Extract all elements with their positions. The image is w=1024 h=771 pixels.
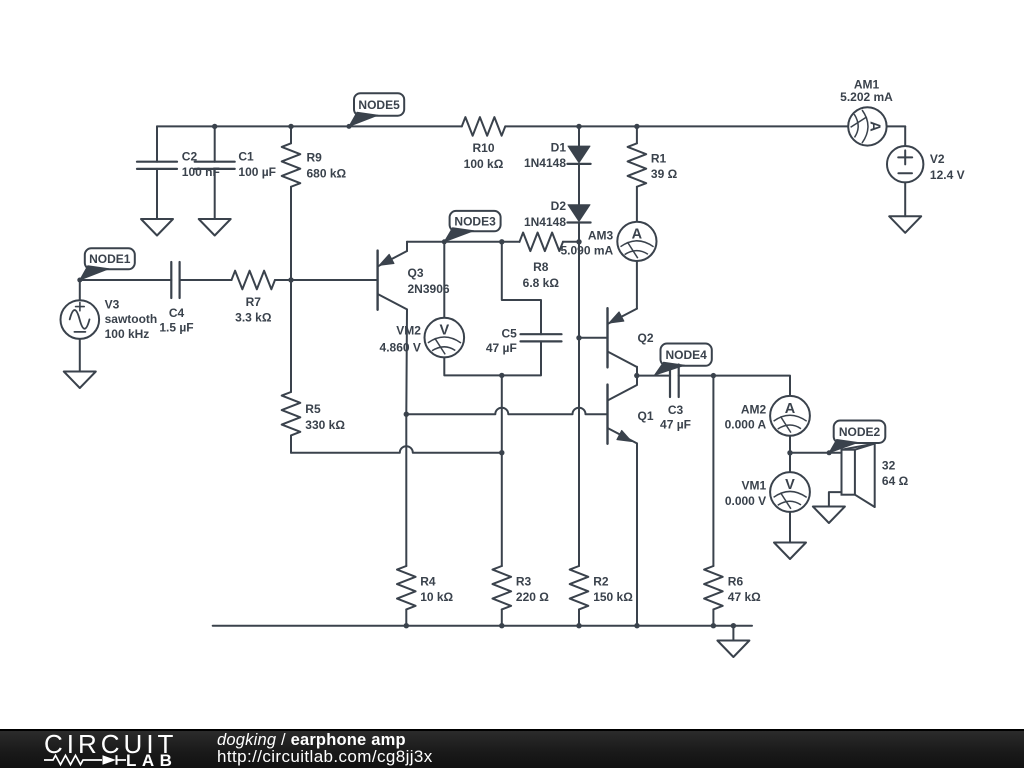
- svg-text:0.000 A: 0.000 A: [725, 418, 767, 432]
- svg-text:NODE4: NODE4: [665, 348, 707, 362]
- node junction C5 top branch: [499, 239, 504, 244]
- node junction Q1 emitter/bottom rail: [634, 623, 639, 628]
- svg-text:C5: C5: [501, 326, 517, 340]
- transistor Q2 PNP (top of output pair): [579, 337, 608, 339]
- wire V3 to ground: [79, 339, 81, 372]
- wire AM2 to NODE2 line: [789, 436, 791, 453]
- svg-text:64 Ω: 64 Ω: [882, 474, 909, 488]
- resistor R7 3.3k: [232, 271, 275, 290]
- voltmeter VM1 0.000 V: [789, 453, 791, 472]
- wire top supply rail right section (R10 to AM1): [505, 125, 848, 127]
- wire NODE3 line from Q3 emitter to R8: [407, 241, 520, 243]
- svg-text:4.860 V: 4.860 V: [380, 340, 421, 354]
- node junction R2/bottom rail: [576, 623, 581, 628]
- svg-text:NODE5: NODE5: [358, 98, 400, 112]
- capacitor C5 47 uF branch wiring top: [502, 242, 541, 334]
- wire diode column down to R2: [578, 338, 580, 566]
- svg-text:R10: R10: [472, 141, 494, 155]
- voltage source V2 12.4 V: [904, 126, 906, 146]
- svg-text:R3: R3: [516, 575, 532, 589]
- svg-text:C1: C1: [238, 149, 254, 163]
- wire R7 to Q3 base: [275, 279, 378, 281]
- wire top supply rail left section (C2 to R10): [157, 125, 462, 127]
- diode D1 1N4148: [578, 126, 580, 146]
- svg-text:NODE2: NODE2: [839, 425, 881, 439]
- wire Q3 collector column down to R4: [405, 414, 407, 566]
- node junction R1/top rail: [634, 124, 639, 129]
- ammeter AM2 0.000 A: [770, 396, 810, 436]
- capacitor C5 bottom wiring: [502, 341, 541, 375]
- svg-text:C3: C3: [668, 403, 684, 417]
- node junction Q3 collector / Q1 base line: [404, 412, 409, 417]
- svg-text:A: A: [866, 121, 882, 132]
- wire NODE2 line to speaker: [790, 452, 842, 454]
- node junction AM2/VM1/speaker: [787, 450, 792, 455]
- svg-text:V3: V3: [105, 297, 120, 311]
- wire D1 to D2: [578, 164, 580, 205]
- node junction output NODE4: [634, 373, 639, 378]
- svg-text:C4: C4: [169, 306, 185, 320]
- capacitor C3 47 uF: [669, 365, 671, 398]
- ground below V3: [64, 372, 96, 389]
- wire Q3 emitter up to NODE3 line: [406, 242, 408, 251]
- wire VM1 to ground: [789, 512, 791, 543]
- wire bottom rail: [213, 625, 752, 627]
- footer author / title line: [217, 731, 406, 750]
- wire bottom rail to ground: [732, 626, 734, 641]
- svg-text:3.3 kΩ: 3.3 kΩ: [235, 311, 272, 325]
- svg-text:AM2: AM2: [741, 403, 767, 417]
- svg-text:sawtooth: sawtooth: [105, 312, 158, 326]
- wire Q2 collector down to output node: [636, 367, 638, 376]
- wire speaker bottom terminal to ground: [829, 492, 842, 506]
- svg-text:47 µF: 47 µF: [486, 341, 517, 355]
- node junction R9/top rail: [288, 124, 293, 129]
- svg-text:R8: R8: [533, 260, 549, 274]
- svg-text:VM1: VM1: [742, 479, 767, 493]
- svg-text:V2: V2: [930, 152, 945, 166]
- wire Q1 base line (hops over C5 and diode columns): [406, 408, 607, 415]
- node junction C3/R6/AM2: [711, 373, 716, 378]
- svg-text:100 µF: 100 µF: [238, 165, 276, 179]
- svg-text:R2: R2: [593, 575, 609, 589]
- svg-text:Q3: Q3: [408, 266, 424, 280]
- svg-text:R9: R9: [307, 151, 323, 165]
- resistor R2 150k: [570, 566, 589, 609]
- svg-text:39 Ω: 39 Ω: [651, 167, 678, 181]
- wire diode column down to Q2 base node: [578, 242, 580, 338]
- svg-text:330 kΩ: 330 kΩ: [305, 418, 345, 432]
- ground below speaker: [813, 507, 845, 524]
- svg-text:R6: R6: [728, 575, 744, 589]
- voltmeter VM2 4.860 V: [443, 242, 445, 318]
- svg-text:VM2: VM2: [396, 324, 421, 338]
- svg-text:0.000 V: 0.000 V: [725, 494, 766, 508]
- footer url line: [217, 747, 433, 767]
- svg-text:A: A: [785, 401, 796, 417]
- wire Q1 emitter down to bottom rail: [636, 443, 638, 625]
- speaker SPK 32/64 ohm: [842, 450, 855, 495]
- wire Q1 collector up to output node: [636, 376, 638, 385]
- node junction R4/bottom rail: [404, 623, 409, 628]
- svg-text:100 kΩ: 100 kΩ: [464, 157, 504, 171]
- CircuitLab logo resistor-diode glyph: [43, 753, 129, 767]
- svg-text:D1: D1: [551, 141, 567, 155]
- svg-text:D2: D2: [551, 199, 567, 213]
- flag NODE3: [450, 211, 501, 231]
- node junction R5 wire / R3 column: [499, 450, 504, 455]
- svg-text:10 kΩ: 10 kΩ: [420, 590, 453, 604]
- resistor R3 220: [493, 566, 512, 609]
- wire D2 to node at R8: [578, 223, 580, 242]
- svg-text:Q1: Q1: [638, 409, 654, 423]
- svg-text:NODE1: NODE1: [89, 252, 131, 266]
- svg-text:5.202 mA: 5.202 mA: [840, 90, 893, 104]
- svg-text:V: V: [439, 323, 449, 339]
- node junction R3/bottom rail: [499, 623, 504, 628]
- node junction R6/bottom rail: [711, 623, 716, 628]
- flag NODE1: [85, 248, 135, 269]
- svg-text:Q2: Q2: [638, 331, 654, 345]
- wire VM2 bottom to C5 bottom line: [444, 357, 502, 375]
- flag NODE5: [354, 93, 404, 116]
- svg-text:1N4148: 1N4148: [524, 156, 566, 170]
- resistor R1: [636, 126, 638, 143]
- svg-text:47 kΩ: 47 kΩ: [728, 590, 761, 604]
- ammeter AM1: [887, 125, 905, 127]
- svg-text:AM3: AM3: [588, 228, 614, 242]
- svg-text:32: 32: [882, 459, 896, 473]
- node junction D2/R8: [576, 239, 581, 244]
- resistor R10 in top rail: [462, 117, 505, 136]
- wire C5/R3 column down: [501, 375, 503, 452]
- node junction R9/R5/R7: [288, 277, 293, 282]
- resistor R4 10k: [397, 566, 416, 609]
- node junction D1/top rail: [576, 124, 581, 129]
- capacitor C5 plates: [521, 333, 562, 335]
- resistor R5 330k: [290, 280, 292, 392]
- resistor R9: [290, 126, 292, 143]
- wire R5 bottom to R3 column (with hop over R4 column): [291, 446, 502, 453]
- svg-text:6.8 kΩ: 6.8 kΩ: [523, 276, 560, 290]
- wire C4 to R7: [180, 279, 232, 281]
- CircuitLab logo wordmark LAB: [126, 751, 177, 771]
- svg-text:R5: R5: [305, 402, 321, 416]
- transistor Q3 2N3906 PNP: [376, 251, 378, 310]
- svg-text:NODE3: NODE3: [454, 215, 496, 229]
- capacitor C1: [214, 126, 216, 161]
- wire output node to C3: [637, 375, 670, 377]
- resistor R6 47k: [712, 376, 714, 566]
- node junction Q2 base: [576, 335, 581, 340]
- ground below C1: [199, 219, 231, 236]
- svg-text:12.4 V: 12.4 V: [930, 168, 965, 182]
- svg-text:680 kΩ: 680 kΩ: [307, 166, 347, 180]
- diode D2 1N4148: [568, 205, 590, 222]
- flag NODE4: [661, 344, 712, 366]
- ground below VM1: [774, 543, 806, 560]
- svg-text:V: V: [785, 477, 795, 493]
- ground below V2: [889, 216, 921, 233]
- svg-text:1N4148: 1N4148: [524, 215, 566, 229]
- wire node to AM2: [713, 376, 790, 396]
- capacitor C4 1.5 uF: [170, 262, 172, 298]
- voltage source V3 sawtooth 100 kHz: [79, 280, 81, 300]
- svg-text:1.5 µF: 1.5 µF: [159, 321, 193, 335]
- wire NODE1 to C4: [80, 279, 172, 281]
- svg-text:47 µF: 47 µF: [660, 417, 691, 431]
- svg-text:100 kHz: 100 kHz: [105, 327, 150, 341]
- node junction VM2/C5 bottom: [499, 373, 504, 378]
- resistor R8 6.8k: [520, 233, 563, 252]
- node junction ground/bottom rail: [731, 623, 736, 628]
- ground at bottom rail: [717, 641, 749, 658]
- svg-text:A: A: [632, 226, 643, 242]
- svg-text:R7: R7: [246, 295, 262, 309]
- flag NODE2: [834, 421, 886, 444]
- ammeter AM3: [617, 222, 656, 261]
- capacitor C2: [156, 126, 158, 161]
- transistor Q1 NPN (bottom of output pair): [606, 385, 608, 444]
- svg-text:220 Ω: 220 Ω: [516, 590, 549, 604]
- wire AM3 to Q2 emitter: [636, 261, 638, 309]
- wire Q3 collector down to R4: [405, 310, 408, 415]
- svg-text:R1: R1: [651, 151, 667, 165]
- wire C3 to R6/AM2 node: [679, 375, 714, 377]
- svg-text:150 kΩ: 150 kΩ: [593, 590, 633, 604]
- wire V2 to ground: [904, 182, 906, 216]
- ground below C2: [141, 219, 173, 236]
- svg-text:R4: R4: [420, 575, 436, 589]
- CircuitLab logo wordmark CIRCUIT: [44, 729, 177, 760]
- svg-text:5.090 mA: 5.090 mA: [560, 244, 613, 258]
- node junction C1/top rail: [212, 124, 217, 129]
